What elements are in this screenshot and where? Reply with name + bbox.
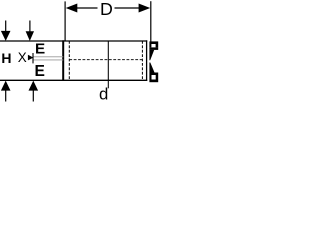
dimension D: dimension line right segment [115, 7, 143, 9]
right end profile: top ring left column [149, 44, 151, 47]
svg-text:d: d [99, 85, 108, 104]
right end profile: bottom ring left column [149, 75, 151, 80]
hidden bore line left (dashed vertical) [68, 41, 70, 80]
dimension D: dimension line left segment [74, 7, 98, 9]
svg-text:D: D [100, 0, 113, 19]
right end profile: top tooth (wedge pointing down) [149, 50, 154, 60]
hidden bore line right (dashed vertical) [141, 41, 143, 80]
body left edge [62, 40, 64, 81]
right end profile: bottom ring inner bar [149, 73, 158, 76]
dimension H: top arrow [1, 31, 11, 41]
svg-text:E: E [35, 41, 45, 58]
body bottom edge (extends left to margin) [0, 79, 147, 81]
right end profile: bottom tooth (wedge pointing up) [149, 63, 154, 73]
dimension D: right extension line [150, 1, 152, 41]
dimension X: top arrow tail [29, 21, 31, 33]
dimension H: bottom arrow [1, 81, 11, 91]
body right edge [146, 40, 148, 81]
svg-text:E: E [35, 63, 45, 80]
right end profile: top ring right column [156, 44, 159, 47]
shoulder extension line lower (thin, to left of body) [33, 59, 63, 61]
dimension X: short vertical dimension line [32, 53, 34, 63]
hidden shoulder line lower (dashed horizontal) [69, 59, 142, 61]
right end profile: bottom ring outer bar [149, 80, 158, 83]
dimension D: right arrowhead [139, 4, 151, 13]
right end profile: top ring outer bar [149, 41, 158, 44]
dimension D: left extension line [64, 1, 66, 41]
dimension X: bottom arrow [29, 81, 39, 91]
right end profile: top ring inner bar [149, 47, 158, 50]
dimension d: leader line (bore edge extended below body) [107, 41, 109, 88]
dimension X: leader arrow pointing right [28, 55, 34, 61]
shoulder extension line upper (thin, to left of body) [33, 56, 63, 58]
dimension D: left arrowhead [66, 4, 78, 13]
dimension X: bottom arrow tail [32, 89, 34, 102]
dimension H: bottom arrow tail [5, 89, 7, 102]
body top edge (extends left to margin) [0, 40, 147, 42]
svg-text:X: X [18, 50, 27, 65]
dimension H: top arrow tail [5, 21, 7, 33]
right end profile: bottom ring right column [156, 75, 159, 80]
svg-text:H: H [1, 50, 11, 66]
dimension X: top arrow [26, 31, 34, 41]
